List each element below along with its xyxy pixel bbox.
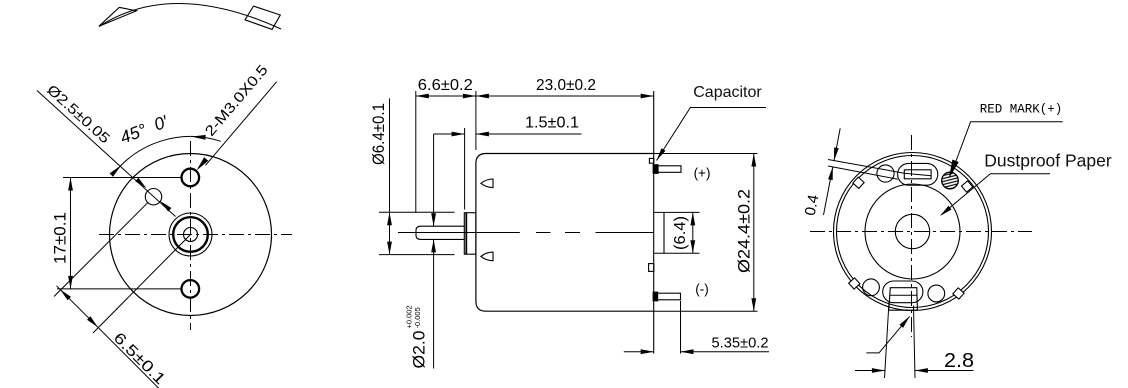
brush leader line bottom: [866, 316, 909, 353]
brush plate top rect: [904, 170, 931, 179]
dimension line Dia24.4: [753, 154, 755, 312]
brush plate bottom midline: [890, 294, 917, 296]
arrow 2.8 right: [915, 368, 928, 373]
rear bearing hole circle: [895, 214, 929, 248]
small hole bottom-right: [928, 285, 945, 302]
endbell edge line / extension line right side: [653, 91, 655, 354]
svg-text:Ø24.4±0.2: Ø24.4±0.2: [735, 189, 754, 273]
svg-text:5.35±0.2: 5.35±0.2: [712, 336, 769, 352]
5.35 dim right approach line: [681, 351, 770, 353]
2.8 dim left extension line: [885, 302, 890, 378]
1.5 dim right approach line: [476, 133, 582, 135]
svg-text:(+): (+): [694, 166, 711, 181]
arrow 6.5 dim lower: [87, 316, 98, 327]
centerline right segment inside body: [596, 232, 654, 234]
terminal (+): [654, 166, 681, 173]
svg-text:0.4: 0.4: [802, 193, 823, 217]
arrow 5.35 right: [681, 349, 694, 354]
shaft boss bearing circle: [173, 217, 208, 252]
5.35 dim left approach line: [624, 351, 654, 353]
dimension line (6.4): [692, 212, 694, 253]
2.8 dim right approach line: [915, 370, 974, 372]
arrow (6.4) bottom: [690, 240, 695, 253]
arrow at top mounting hole: [197, 157, 209, 170]
extension line terminal right for 5.35 dim: [680, 301, 682, 354]
vent triangle lower: [481, 252, 493, 261]
RED MARK leader arrow: [949, 160, 959, 179]
rim tab upper-left: [853, 177, 864, 188]
rim tab lower-right: [953, 288, 964, 299]
capacitor bump on endbell: [649, 158, 653, 163]
terminal (-) base solder: [653, 292, 658, 301]
arrow 1.5 left: [452, 132, 465, 137]
svg-text:RED MARK(+): RED MARK(+): [980, 103, 1063, 117]
diagonal extension line through pilot hole: [54, 202, 148, 296]
0.4 dim upper pointer line: [834, 128, 840, 160]
leader line 2-M3.0X0.5 to top mounting hole: [206, 82, 277, 166]
brush plate top midline: [904, 173, 931, 176]
svg-text:6.6±0.2: 6.6±0.2: [418, 77, 473, 94]
0.4 dim lower pointer line: [824, 167, 833, 215]
1.5 dim left approach line: [434, 133, 465, 135]
horizontal centerline (rear view): [810, 231, 1032, 233]
arrow at pilot hole lower-right: [160, 201, 171, 212]
svg-text:Ø6.4±0.1: Ø6.4±0.1: [369, 103, 388, 165]
mounting hole 2-M3.0X0.5 top: [182, 169, 200, 187]
svg-text:6.5±0.1: 6.5±0.1: [110, 329, 169, 388]
Dia2.0 lower pointer line: [433, 239, 435, 368]
centerline through shaft (side view): [398, 232, 520, 234]
lower bump on endbell: [649, 264, 654, 272]
arrow 6.5 dim upper: [60, 289, 71, 300]
bushing: [464, 213, 476, 255]
arrow Dia24.4 bottom: [751, 298, 756, 311]
arrow Dia2.0 top: [431, 213, 436, 226]
svg-text:Capacitor: Capacitor: [693, 84, 762, 101]
vertical centerline (rear view): [911, 135, 913, 337]
arrow at pilot hole upper-left: [135, 178, 146, 189]
svg-text:(6.4): (6.4): [672, 216, 689, 250]
svg-text:Ø2.0: Ø2.0: [410, 331, 429, 369]
arrow Dia24.4 top: [751, 154, 756, 167]
motor body outline (side view): [476, 154, 654, 312]
extension line body left above: [475, 91, 477, 150]
rim tab lower-left: [849, 278, 860, 289]
arrow Dia6.4 top: [387, 212, 392, 225]
dimension line 6.6+-0.2: [416, 95, 476, 97]
extension line body top to Dia24.4 dim: [654, 153, 758, 155]
svg-text:2.8: 2.8: [944, 350, 974, 372]
shaft (side view): [416, 226, 464, 239]
arrow 23.0 right: [641, 94, 654, 99]
bushing thick left edge: [465, 213, 467, 255]
Dia2.0 upper pointer line: [433, 134, 435, 226]
svg-text:1.5±0.1: 1.5±0.1: [525, 115, 579, 132]
extension line Dia6.4 bottom: [379, 254, 455, 256]
washer detail arc (curved spring washer side view): [99, 4, 281, 29]
diagonal extension line through center: [93, 235, 191, 334]
leader line for Dia2.5 dimension at 45 deg: [37, 91, 176, 217]
extension line from bottom mounting hole: [57, 288, 182, 290]
arrow 0.4 bottom: [828, 167, 833, 180]
dimension line 17+-0.1: [70, 178, 72, 289]
dimension line 6.5+-0.1 diagonal: [57, 286, 161, 388]
arrow 2.8 left: [872, 368, 885, 373]
arrow 1.5 right: [476, 132, 489, 137]
rear cover inner circle: [865, 184, 960, 279]
arrow Dia2.0 bottom: [431, 239, 436, 252]
extension line from top mounting hole: [63, 177, 181, 179]
svg-text:45° 0′: 45° 0′: [117, 111, 171, 148]
arrow 6.6 right: [463, 94, 476, 99]
washer detail left wedge: [99, 7, 137, 26]
brush plate bottom rect: [889, 288, 918, 311]
dimension text Dia2.0 with tolerances: [405, 305, 429, 368]
Dustproof Paper leader line: [941, 174, 1050, 215]
arrow at arc diagonal end: [110, 165, 122, 177]
arrow 17 dim top: [68, 178, 73, 191]
terminal (+) base solder: [653, 165, 658, 174]
arrow 0.4 top: [834, 147, 839, 160]
centerline dash 1 inside body: [536, 232, 551, 234]
brush leader arrow: [899, 316, 909, 328]
extension line body bottom to Dia24.4 dim: [654, 310, 758, 312]
svg-text:Dustproof Paper: Dustproof Paper: [984, 151, 1112, 171]
arrow (6.4) top: [690, 212, 695, 225]
shaft boss outer circle: [169, 213, 212, 256]
small hole top-left: [877, 165, 894, 182]
angular dimension arc 45 deg: [113, 137, 221, 175]
dimension line 23.0+-0.2: [476, 95, 654, 97]
svg-text:(-): (-): [695, 282, 709, 297]
2.8 dim right extension line: [914, 306, 916, 379]
arrow 17 dim bottom: [68, 276, 73, 289]
rear cover outer circle: [834, 153, 992, 311]
svg-text:Ø2.5±0.05: Ø2.5±0.05: [43, 82, 112, 147]
brush slot top stadium: [898, 163, 938, 185]
rim tab upper-right: [961, 181, 972, 192]
arrow Dia6.4 bottom: [387, 242, 392, 255]
Dustproof Paper leader arrow: [940, 206, 952, 216]
dimension line Dia6.4: [389, 98, 391, 254]
rear hub right edge: [663, 212, 665, 253]
shaft circle: [184, 228, 198, 242]
horizontal centerline (front view): [99, 234, 292, 236]
brush strip line 1: [828, 160, 904, 174]
RED MARK leader line: [952, 122, 1063, 173]
extension line bushing left for 1.5 dim: [464, 128, 466, 210]
vent triangle upper: [481, 179, 493, 188]
extension line shaft tip for 6.6 dim: [415, 91, 417, 213]
arrow 23.0 left: [476, 94, 489, 99]
small hole bottom-left: [863, 279, 880, 296]
svg-text:-0.005: -0.005: [413, 307, 422, 328]
rear hub bottom edge / (6.4) extension line bottom: [654, 252, 700, 254]
rear hub top edge / (6.4) extension line top: [654, 211, 700, 213]
brush slot bottom stadium: [883, 281, 923, 303]
vertical centerline (front view): [190, 141, 192, 330]
mounting hole 2-M3.0X0.5 bottom: [182, 280, 200, 298]
pilot hole Dia2.5: [145, 189, 161, 205]
2.8 dim left approach line: [855, 370, 885, 372]
centerline dash 2 inside body: [565, 232, 580, 234]
washer detail right cross-section parallelogram: [245, 6, 280, 29]
brush strip line 2: [828, 166, 898, 179]
arrow 6.6 left: [416, 94, 429, 99]
svg-text:23.0±0.2: 23.0±0.2: [536, 77, 596, 94]
extension line Dia6.4 top: [379, 211, 455, 213]
terminal (-): [654, 293, 681, 300]
arrow at arc vertical-line end: [192, 135, 206, 140]
svg-text:17±0.1: 17±0.1: [51, 212, 70, 264]
Capacitor leader arrow: [657, 148, 666, 160]
motor body outline circle (front view): [110, 154, 272, 316]
arrow 5.35 left: [641, 349, 654, 354]
rear cover rim circle: [837, 156, 989, 308]
Capacitor leader line: [657, 108, 767, 161]
